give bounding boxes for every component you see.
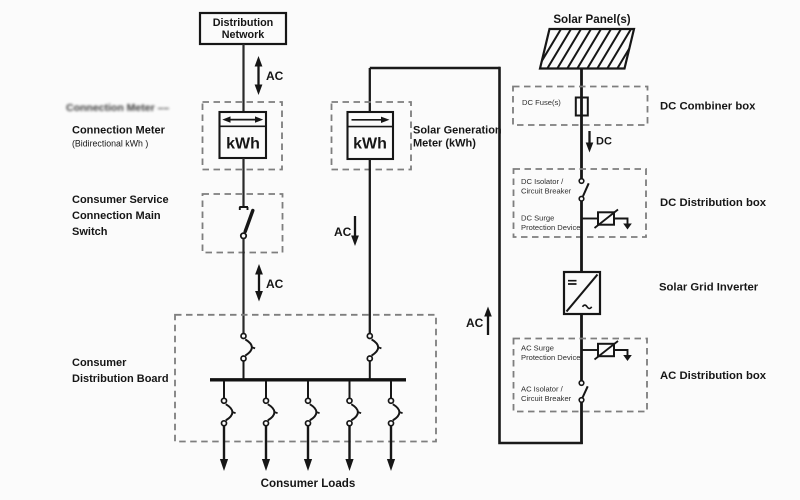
svg-text:Distribution Board: Distribution Board — [72, 373, 169, 385]
svg-text:(Bidirectional kWh ): (Bidirectional kWh ) — [72, 139, 148, 149]
svg-text:Consumer: Consumer — [72, 357, 127, 369]
svg-text:DC: DC — [596, 136, 612, 148]
svg-text:Connection Main: Connection Main — [72, 210, 161, 222]
svg-text:DC Isolator /: DC Isolator / — [521, 177, 564, 186]
svg-text:Protection Device: Protection Device — [521, 353, 581, 362]
svg-text:AC: AC — [266, 277, 284, 291]
svg-text:Solar Panel(s): Solar Panel(s) — [553, 13, 630, 26]
svg-text:kWh: kWh — [226, 136, 260, 153]
svg-text:Network: Network — [222, 29, 266, 41]
svg-text:Circuit Breaker: Circuit Breaker — [521, 187, 572, 196]
svg-text:DC Combiner box: DC Combiner box — [660, 101, 756, 113]
svg-text:kWh: kWh — [353, 136, 387, 153]
svg-text:Consumer Service: Consumer Service — [72, 194, 169, 206]
svg-text:AC: AC — [266, 69, 284, 83]
svg-text:Meter (kWh): Meter (kWh) — [413, 138, 476, 150]
svg-text:AC: AC — [334, 225, 352, 239]
svg-text:Distribution: Distribution — [213, 17, 274, 29]
svg-text:Circuit Breaker: Circuit Breaker — [521, 394, 572, 403]
svg-text:AC Isolator /: AC Isolator / — [521, 385, 564, 394]
svg-text:AC Distribution box: AC Distribution box — [660, 370, 767, 382]
svg-text:Switch: Switch — [72, 226, 108, 238]
svg-text:Consumer Loads: Consumer Loads — [261, 477, 356, 490]
svg-text:Solar Generation: Solar Generation — [413, 125, 502, 137]
svg-text:Connection Meter ––: Connection Meter –– — [66, 102, 169, 114]
svg-text:AC Surge: AC Surge — [521, 344, 554, 353]
svg-text:AC: AC — [466, 316, 484, 330]
svg-text:Connection Meter: Connection Meter — [72, 125, 166, 137]
svg-text:DC Surge: DC Surge — [521, 214, 554, 223]
svg-text:Solar Grid Inverter: Solar Grid Inverter — [659, 282, 759, 294]
svg-text:DC Distribution box: DC Distribution box — [660, 197, 767, 209]
svg-text:Protection Device: Protection Device — [521, 223, 581, 232]
svg-text:DC Fuse(s): DC Fuse(s) — [522, 98, 561, 107]
